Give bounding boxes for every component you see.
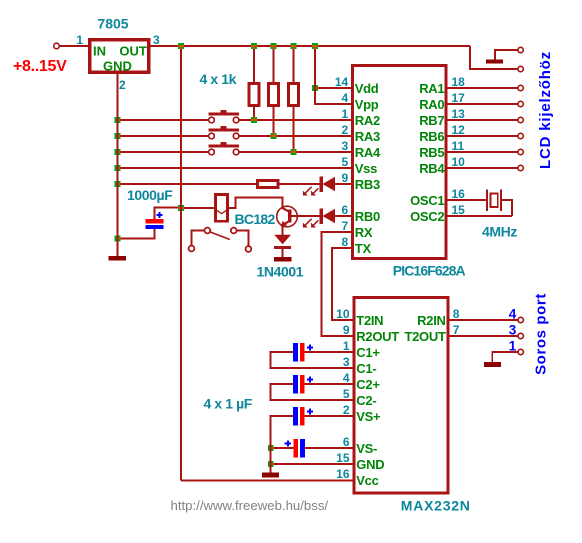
wire OSC1 to crystal bbox=[448, 199, 487, 201]
wire RB5 to LCD bbox=[448, 151, 518, 153]
svg-text:9: 9 bbox=[343, 323, 350, 337]
svg-text:RX: RX bbox=[355, 225, 373, 240]
pushbutton S1 bbox=[208, 110, 239, 123]
wire C4 minus down to gnd bbox=[271, 416, 294, 473]
resistor R1 1k bbox=[249, 46, 259, 120]
regulator U1 7805 bbox=[76, 16, 160, 93]
terminal serial 4 bbox=[518, 317, 523, 322]
wire C5 plus to gnd column bbox=[271, 447, 294, 449]
svg-text:3: 3 bbox=[153, 33, 160, 47]
junction bbox=[115, 149, 121, 155]
terminal J1 input bbox=[54, 43, 60, 49]
svg-text:LCD kijelzőhöz: LCD kijelzőhöz bbox=[537, 51, 554, 169]
svg-text:RA4: RA4 bbox=[355, 145, 381, 160]
svg-text:C1+: C1+ bbox=[356, 345, 380, 360]
wire Q1 base to LED D2 bbox=[292, 215, 320, 217]
pushbutton S2 bbox=[208, 126, 239, 139]
svg-text:2: 2 bbox=[343, 403, 350, 417]
wire main +5V vertical bbox=[180, 46, 182, 481]
wire +5V rail bbox=[151, 45, 471, 47]
wire S2 to PIC bbox=[239, 135, 351, 137]
svg-text:5: 5 bbox=[343, 387, 350, 401]
svg-text:VS+: VS+ bbox=[356, 409, 381, 424]
svg-text:RB0: RB0 bbox=[355, 209, 380, 224]
terminal LCD pin gnd bbox=[518, 47, 523, 52]
wire R4 to LED D1 bbox=[280, 183, 320, 185]
capacitor C5 1uF bbox=[285, 439, 305, 458]
diode D3 1N4001 bbox=[274, 235, 291, 257]
svg-text:17: 17 bbox=[452, 91, 466, 105]
svg-text:OSC1: OSC1 bbox=[410, 193, 444, 208]
wire Q1 emitter to D3 bbox=[282, 226, 284, 235]
wire S3 to PIC bbox=[239, 151, 351, 153]
terminal LCD RB5 bbox=[518, 149, 523, 154]
wire Vss to GND bbox=[118, 167, 352, 169]
svg-text:C2+: C2+ bbox=[356, 377, 380, 392]
svg-text:RB3: RB3 bbox=[355, 177, 380, 192]
LED D2 bbox=[303, 208, 335, 227]
crystal Y1 4MHz bbox=[487, 190, 501, 212]
terminal LCD RA1 bbox=[518, 85, 523, 90]
svg-text:Vcc: Vcc bbox=[356, 473, 378, 488]
svg-text:Soros port: Soros port bbox=[533, 293, 550, 375]
junction bbox=[115, 236, 121, 242]
ground serial bbox=[484, 362, 501, 367]
junction bbox=[271, 43, 277, 49]
junction bbox=[178, 43, 184, 49]
junction bbox=[115, 181, 121, 187]
wire rail to LCD power pin bbox=[470, 46, 518, 69]
capacitor C1 1000uF bbox=[146, 212, 164, 229]
ground D3 bbox=[274, 257, 292, 262]
terminal LCD RB4 bbox=[518, 165, 523, 170]
svg-text:RB6: RB6 bbox=[419, 129, 444, 144]
svg-text:8: 8 bbox=[342, 235, 349, 249]
wire RB4 to LCD bbox=[448, 167, 518, 169]
terminal serial 1 bbox=[518, 349, 523, 354]
svg-text:7805: 7805 bbox=[97, 16, 128, 32]
svg-text:3: 3 bbox=[342, 139, 349, 153]
svg-text:PIC16F628A: PIC16F628A bbox=[393, 263, 466, 279]
wire +5V to C1 bbox=[155, 208, 179, 220]
wire C4 plus to VS+ bbox=[305, 415, 353, 417]
terminal LCD pin power bbox=[518, 66, 523, 71]
svg-text:RB4: RB4 bbox=[419, 161, 445, 176]
wire RB6 to LCD bbox=[448, 135, 518, 137]
svg-text:TX: TX bbox=[355, 241, 372, 256]
junction bbox=[312, 85, 318, 91]
ground LCD bbox=[486, 60, 503, 64]
resistor R3 1k bbox=[289, 46, 299, 152]
junction bbox=[291, 43, 297, 49]
wire RB7 to LCD bbox=[448, 119, 518, 121]
junction bbox=[312, 43, 318, 49]
svg-text:2: 2 bbox=[119, 78, 126, 92]
svg-text:T2IN: T2IN bbox=[356, 313, 383, 328]
svg-text:6: 6 bbox=[342, 203, 349, 217]
wire S1 to PIC bbox=[239, 119, 351, 121]
terminal LCD RB6 bbox=[518, 133, 523, 138]
wire GND column bbox=[117, 74, 119, 257]
IC U2 PIC16F628A bbox=[335, 66, 465, 259]
svg-text:4MHz: 4MHz bbox=[482, 224, 517, 240]
wire +5V to relay K1 bbox=[181, 207, 215, 209]
svg-text:OSC2: OSC2 bbox=[410, 209, 444, 224]
wire GND to R4 bbox=[118, 183, 257, 185]
wire GND to S2 bbox=[118, 135, 209, 137]
pushbutton S3 bbox=[208, 142, 239, 155]
wire LCD ground pin bbox=[495, 50, 518, 60]
wire serial pin1 to gnd bbox=[492, 352, 517, 362]
capacitor C2 1uF bbox=[293, 343, 313, 362]
wire GND to S3 bbox=[118, 151, 209, 153]
svg-text:RA1: RA1 bbox=[419, 81, 444, 96]
svg-text:Vss: Vss bbox=[355, 161, 377, 176]
svg-text:5: 5 bbox=[342, 155, 349, 169]
wire LED D2 to RB0 bbox=[335, 215, 351, 217]
svg-text:RB7: RB7 bbox=[419, 113, 444, 128]
svg-text:3: 3 bbox=[343, 355, 350, 369]
terminal serial 3 bbox=[518, 333, 523, 338]
svg-text:1: 1 bbox=[76, 33, 83, 47]
junction bbox=[268, 461, 274, 467]
svg-text:1: 1 bbox=[509, 339, 517, 354]
junction bbox=[251, 43, 257, 49]
wire RA1 to LCD bbox=[448, 87, 518, 89]
junction bbox=[178, 205, 184, 211]
wire C5 to VS- bbox=[305, 447, 353, 449]
svg-text:http://www.freeweb.hu/bss/: http://www.freeweb.hu/bss/ bbox=[171, 498, 329, 513]
svg-text:BC182: BC182 bbox=[235, 211, 276, 227]
svg-text:16: 16 bbox=[336, 467, 350, 481]
junction bbox=[115, 133, 121, 139]
junction bbox=[251, 117, 257, 123]
relay K1 coil bbox=[215, 194, 229, 221]
svg-text:Vdd: Vdd bbox=[355, 81, 379, 96]
svg-text:GND: GND bbox=[103, 59, 132, 74]
junction bbox=[115, 165, 121, 171]
svg-text:IN: IN bbox=[93, 44, 106, 59]
wire input to 7805 bbox=[60, 45, 88, 47]
wire GND to S1 bbox=[118, 119, 209, 121]
junction bbox=[271, 133, 277, 139]
junction bbox=[115, 117, 121, 123]
svg-text:1: 1 bbox=[343, 339, 350, 353]
wire Vdd feed bbox=[315, 46, 351, 88]
wire TX to T2IN bbox=[332, 248, 353, 320]
svg-text:16: 16 bbox=[452, 187, 466, 201]
transistor Q1 BC182 bbox=[277, 206, 298, 227]
svg-text:VS-: VS- bbox=[356, 441, 377, 456]
svg-text:12: 12 bbox=[452, 123, 466, 137]
svg-text:+8..15V: +8..15V bbox=[13, 58, 67, 75]
svg-text:4 x 1 µF: 4 x 1 µF bbox=[204, 396, 253, 412]
svg-text:RA2: RA2 bbox=[355, 113, 380, 128]
svg-text:4: 4 bbox=[343, 371, 350, 385]
svg-text:15: 15 bbox=[452, 203, 466, 217]
wire R2IN to serial pin4 bbox=[450, 319, 518, 321]
svg-text:RA0: RA0 bbox=[419, 97, 444, 112]
capacitor C3 1uF bbox=[293, 375, 313, 394]
svg-text:15: 15 bbox=[336, 451, 350, 465]
wire C2 plus to C1+ bbox=[305, 351, 353, 353]
svg-text:6: 6 bbox=[343, 435, 350, 449]
ground main bbox=[109, 256, 127, 261]
wire Vpp feed bbox=[315, 88, 351, 104]
wire C3 plus to C2+ bbox=[305, 383, 353, 385]
svg-text:8: 8 bbox=[453, 307, 460, 321]
svg-text:C2-: C2- bbox=[356, 393, 376, 408]
svg-text:4: 4 bbox=[509, 307, 517, 322]
junction bbox=[291, 149, 297, 155]
terminal LCD RB7 bbox=[518, 117, 523, 122]
svg-text:1N4001: 1N4001 bbox=[257, 263, 304, 279]
resistor R2 1k bbox=[269, 46, 279, 136]
svg-text:7: 7 bbox=[342, 219, 349, 233]
svg-text:R2OUT: R2OUT bbox=[356, 329, 399, 344]
svg-text:RA3: RA3 bbox=[355, 129, 380, 144]
svg-text:GND: GND bbox=[356, 457, 384, 472]
wire OSC2 bbox=[448, 215, 512, 217]
svg-text:MAX232N: MAX232N bbox=[401, 498, 471, 514]
svg-text:10: 10 bbox=[452, 155, 466, 169]
wire Vcc feed bottom bbox=[181, 480, 352, 482]
svg-text:1: 1 bbox=[342, 107, 349, 121]
svg-text:Vpp: Vpp bbox=[355, 97, 379, 112]
wire C2 minus loop to C1- bbox=[271, 352, 353, 368]
IC U3 MAX232N bbox=[336, 298, 460, 494]
wire RX to R2OUT bbox=[321, 232, 352, 336]
svg-text:RB5: RB5 bbox=[419, 145, 444, 160]
svg-text:14: 14 bbox=[335, 75, 349, 89]
svg-text:4: 4 bbox=[342, 91, 349, 105]
wire relay to Q1 collector bbox=[229, 198, 283, 209]
svg-text:7: 7 bbox=[453, 323, 460, 337]
svg-text:4 x 1k: 4 x 1k bbox=[200, 71, 237, 87]
switch relay contacts bbox=[189, 228, 252, 252]
terminal LCD RA0 bbox=[518, 101, 523, 106]
svg-text:18: 18 bbox=[452, 75, 466, 89]
svg-text:2: 2 bbox=[342, 123, 349, 137]
svg-text:C1-: C1- bbox=[356, 361, 376, 376]
LED D1 bbox=[303, 176, 335, 195]
wire gnd row to MAX GND bbox=[271, 463, 353, 465]
wire RA0 to LCD bbox=[448, 103, 518, 105]
capacitor C4 1uF bbox=[293, 407, 313, 426]
svg-text:10: 10 bbox=[336, 307, 350, 321]
svg-text:T2OUT: T2OUT bbox=[404, 329, 445, 344]
svg-text:OUT: OUT bbox=[119, 44, 147, 59]
svg-text:9: 9 bbox=[342, 171, 349, 185]
ground MAX232 bbox=[262, 473, 279, 478]
svg-text:3: 3 bbox=[509, 323, 517, 338]
wire crystal to OSC2 bbox=[502, 200, 512, 216]
wire LED D1 to RB3 bbox=[335, 183, 351, 185]
svg-text:11: 11 bbox=[452, 139, 465, 153]
wire C1 to GND bbox=[118, 229, 155, 238]
svg-text:1000µF: 1000µF bbox=[127, 187, 173, 203]
svg-text:13: 13 bbox=[452, 107, 466, 121]
wire C3 minus loop to C2- bbox=[271, 384, 353, 400]
junction bbox=[268, 445, 274, 451]
resistor R4 1k bbox=[258, 181, 279, 188]
svg-text:R2IN: R2IN bbox=[417, 313, 445, 328]
wire T2OUT to serial pin3 bbox=[450, 335, 518, 337]
